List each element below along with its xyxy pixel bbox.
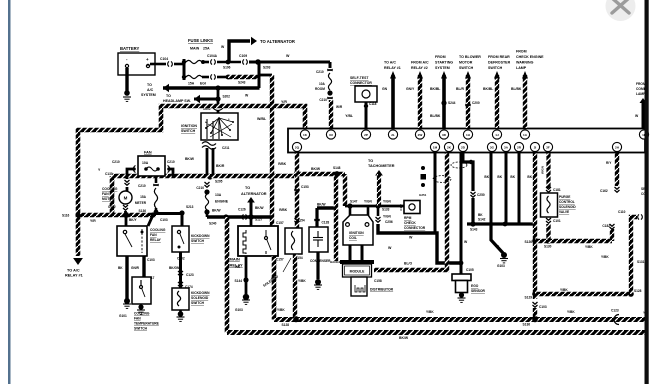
svg-text:CONNECTOR: CONNECTOR	[350, 81, 372, 85]
svg-text:BK: BK	[527, 175, 532, 179]
svg-text:BK: BK	[484, 175, 489, 179]
svg-text:BK: BK	[478, 213, 483, 217]
svg-text:Y/BK: Y/BK	[585, 245, 593, 249]
svg-text:C103: C103	[160, 218, 168, 222]
svg-text:C200: C200	[472, 101, 480, 105]
svg-text:Y/BK: Y/BK	[298, 279, 306, 283]
svg-text:C105: C105	[466, 268, 474, 272]
svg-text:SENSOR: SENSOR	[471, 289, 486, 293]
svg-text:W: W	[286, 54, 290, 58]
svg-text:2Q: 2Q	[295, 146, 300, 150]
svg-text:Y/R: Y/R	[90, 219, 96, 223]
svg-text:BL/O: BL/O	[404, 262, 412, 266]
svg-text:C103: C103	[147, 258, 155, 262]
svg-text:BK/W: BK/W	[399, 336, 409, 340]
svg-text:C102: C102	[108, 205, 116, 209]
svg-text:DEFROSTER: DEFROSTER	[488, 61, 511, 65]
svg-text:C104A: C104A	[207, 54, 218, 58]
svg-text:SWITCH: SWITCH	[181, 129, 196, 133]
svg-text:SYSTEM: SYSTEM	[141, 93, 156, 97]
svg-text:C147: C147	[399, 204, 403, 211]
svg-text:2L: 2L	[391, 133, 395, 137]
svg-text:FROM: FROM	[636, 82, 646, 86]
svg-text:SWITCH: SWITCH	[191, 301, 205, 305]
svg-text:W: W	[388, 246, 392, 250]
svg-text:SYSTEM: SYSTEM	[435, 66, 450, 70]
svg-text:BK/W: BK/W	[185, 157, 195, 161]
svg-text:COOLING: COOLING	[150, 228, 166, 232]
svg-text:BK/BL: BK/BL	[430, 87, 440, 91]
svg-text:G101: G101	[119, 314, 127, 318]
svg-text:RELAY: RELAY	[150, 238, 162, 242]
svg-text:FROM REAR: FROM REAR	[488, 55, 510, 59]
svg-text:Y/GN: Y/GN	[383, 215, 391, 219]
svg-text:TEMPERATURE: TEMPERATURE	[134, 322, 160, 326]
svg-text:SELF-TEST: SELF-TEST	[350, 76, 369, 80]
svg-text:S136: S136	[523, 323, 531, 327]
svg-text:C123: C123	[611, 309, 619, 313]
svg-text:GN: GN	[382, 87, 388, 91]
svg-text:2W: 2W	[418, 133, 423, 137]
svg-text:R/BK: R/BK	[279, 208, 287, 212]
svg-text:15A: 15A	[188, 82, 195, 86]
svg-text:IGNITION: IGNITION	[349, 231, 364, 235]
svg-text:BATTERY: BATTERY	[120, 46, 140, 51]
svg-text:Y/BK: Y/BK	[426, 310, 434, 314]
svg-text:VALVE: VALVE	[559, 210, 569, 214]
svg-text:C211: C211	[222, 146, 230, 150]
svg-text:C101: C101	[553, 219, 561, 223]
svg-text:TO: TO	[166, 94, 171, 98]
svg-text:COOLING: COOLING	[102, 187, 118, 191]
svg-text:C210: C210	[196, 186, 204, 190]
svg-text:BK/W: BK/W	[311, 167, 321, 171]
svg-text:PURGE: PURGE	[559, 195, 570, 199]
svg-text:Y/BK: Y/BK	[601, 255, 609, 259]
svg-text:S130: S130	[544, 245, 552, 249]
svg-text:10A: 10A	[319, 82, 326, 86]
svg-text:BK/W: BK/W	[255, 206, 264, 210]
svg-text:S143: S143	[470, 228, 478, 232]
svg-text:ENGINE: ENGINE	[215, 200, 229, 204]
svg-text:S243: S243	[238, 81, 246, 85]
svg-text:1J: 1J	[495, 133, 499, 137]
svg-text:S129: S129	[525, 296, 533, 300]
svg-text:R/BK: R/BK	[278, 162, 286, 166]
svg-text:MOTOR: MOTOR	[459, 61, 473, 65]
svg-text:C128: C128	[322, 221, 330, 225]
svg-text:S244: S244	[448, 101, 456, 105]
svg-text:2F: 2F	[546, 146, 550, 150]
svg-text:TO BLOWER: TO BLOWER	[459, 55, 481, 59]
svg-text:CONNECTOR: CONNECTOR	[404, 226, 426, 230]
svg-text:C157: C157	[276, 258, 284, 262]
svg-text:GN/Y: GN/Y	[406, 87, 415, 91]
svg-text:FAN: FAN	[134, 317, 141, 321]
svg-text:+: +	[146, 57, 149, 62]
svg-text:GN/R: GN/R	[131, 266, 140, 270]
svg-text:S136: S136	[139, 209, 147, 213]
svg-text:15A: 15A	[140, 195, 147, 199]
svg-text:S126: S126	[525, 240, 533, 244]
svg-text:1M: 1M	[433, 146, 438, 150]
svg-text:S240: S240	[209, 222, 217, 226]
svg-text:13A: 13A	[215, 193, 222, 197]
svg-text:CHECK: CHECK	[404, 221, 416, 225]
svg-text:MAIN: MAIN	[190, 47, 200, 51]
svg-text:FAN: FAN	[102, 192, 109, 196]
svg-text:ROOM: ROOM	[315, 87, 325, 91]
svg-text:SOLENOID: SOLENOID	[559, 205, 576, 209]
svg-text:G103: G103	[235, 308, 243, 312]
svg-text:C158: C158	[374, 279, 382, 283]
svg-text:C250: C250	[477, 193, 485, 197]
svg-text:10A: 10A	[142, 161, 149, 165]
svg-text:FAN: FAN	[144, 151, 152, 155]
svg-text:ALTERNATOR: ALTERNATOR	[241, 192, 267, 196]
svg-text:SWITCH: SWITCH	[488, 66, 503, 70]
svg-text:Y/BL: Y/BL	[345, 114, 353, 118]
svg-text:BL/R: BL/R	[456, 87, 464, 91]
svg-text:A/C: A/C	[147, 88, 154, 92]
svg-text:S128: S128	[634, 289, 642, 293]
svg-text:TO A/C: TO A/C	[384, 61, 396, 65]
svg-text:TACHOMETER: TACHOMETER	[368, 164, 395, 168]
svg-text:EGO: EGO	[471, 284, 479, 288]
svg-text:G251: G251	[419, 193, 427, 197]
svg-text:STARTING: STARTING	[435, 61, 453, 65]
svg-text:S203: S203	[263, 66, 271, 70]
svg-text:S213: S213	[186, 205, 194, 209]
svg-text:TO: TO	[368, 159, 373, 163]
svg-text:WARNING: WARNING	[516, 61, 534, 65]
svg-text:C123: C123	[186, 273, 194, 277]
svg-text:C181: C181	[553, 188, 561, 192]
svg-text:C210: C210	[167, 160, 175, 164]
svg-text:TO: TO	[147, 83, 152, 87]
svg-text:S106: S106	[223, 66, 231, 70]
svg-text:S128: S128	[282, 323, 290, 327]
svg-text:RPM: RPM	[404, 216, 412, 220]
svg-text:Y/BK: Y/BK	[277, 308, 285, 312]
svg-text:COOLING: COOLING	[134, 312, 150, 316]
svg-text:C126: C126	[238, 208, 246, 212]
svg-text:MAIN: MAIN	[230, 257, 240, 262]
svg-text:HEADLAMP SW.: HEADLAMP SW.	[163, 99, 191, 103]
svg-text:S144: S144	[235, 279, 243, 283]
svg-text:SWITCH: SWITCH	[134, 327, 148, 331]
svg-text:FUSE LINKS: FUSE LINKS	[188, 38, 213, 43]
svg-text:R/Y: R/Y	[606, 161, 612, 165]
svg-text:DISTRIBUTOR: DISTRIBUTOR	[370, 288, 394, 292]
svg-text:COIL: COIL	[349, 236, 357, 240]
svg-text:C210: C210	[138, 184, 146, 188]
svg-text:FROM: FROM	[516, 50, 527, 54]
svg-text:S148: S148	[333, 166, 341, 170]
svg-text:S131: S131	[637, 260, 645, 264]
svg-text:C103: C103	[539, 305, 547, 309]
svg-text:SWITCH: SWITCH	[191, 239, 205, 243]
svg-text:25A: 25A	[203, 47, 210, 51]
svg-text:C210: C210	[319, 98, 327, 102]
svg-text:RELAY #1: RELAY #1	[384, 66, 401, 70]
svg-text:3G: 3G	[490, 146, 495, 150]
svg-text:BK: BK	[235, 265, 240, 269]
svg-text:LAMP: LAMP	[516, 66, 527, 70]
svg-text:TO: TO	[245, 186, 250, 190]
svg-text:MOTOR: MOTOR	[102, 197, 115, 201]
svg-text:S116: S116	[62, 214, 69, 218]
svg-text:S205: S205	[215, 180, 223, 184]
svg-text:BK: BK	[510, 175, 515, 179]
svg-text:BK/W: BK/W	[212, 209, 221, 213]
svg-text:C157: C157	[276, 221, 284, 225]
svg-text:METER: METER	[135, 201, 147, 205]
svg-text:C162: C162	[600, 189, 608, 193]
svg-text:C153: C153	[301, 185, 309, 189]
svg-text:C104: C104	[160, 57, 168, 61]
svg-text:FROM A/C: FROM A/C	[411, 61, 429, 65]
svg-text:CONDENSER: CONDENSER	[310, 259, 331, 263]
svg-text:Y/BK: Y/BK	[567, 310, 575, 314]
svg-text:S202: S202	[223, 95, 231, 99]
svg-text:FAN: FAN	[150, 233, 157, 237]
svg-text:S127: S127	[255, 218, 263, 222]
svg-text:M: M	[124, 196, 128, 201]
svg-text:C118: C118	[369, 102, 377, 106]
svg-text:2P: 2P	[364, 133, 368, 137]
svg-text:G103: G103	[497, 264, 505, 268]
svg-text:RELAY #1: RELAY #1	[65, 274, 83, 278]
svg-text:EGI: EGI	[200, 82, 206, 86]
svg-text:C109: C109	[239, 54, 247, 58]
svg-text:CONTROL: CONTROL	[559, 200, 575, 204]
svg-text:FROM: FROM	[435, 55, 446, 59]
svg-text:Y/R: Y/R	[281, 100, 287, 104]
svg-text:BK/Y: BK/Y	[129, 218, 137, 222]
svg-text:S147: S147	[350, 200, 358, 204]
svg-text:MODULE: MODULE	[350, 270, 365, 274]
svg-text:RELAY #2: RELAY #2	[411, 66, 428, 70]
svg-text:Y/BK: Y/BK	[560, 288, 568, 292]
svg-text:SOLENOID: SOLENOID	[191, 296, 209, 300]
svg-text:KICKDOWN: KICKDOWN	[191, 234, 210, 238]
svg-text:C110: C110	[618, 210, 626, 214]
svg-text:Y/GN: Y/GN	[383, 200, 391, 204]
svg-text:KICKDOWN: KICKDOWN	[191, 291, 210, 295]
svg-text:BK: BK	[118, 266, 123, 270]
svg-text:W/R: W/R	[336, 105, 343, 109]
svg-text:CHECK ENGINE: CHECK ENGINE	[516, 55, 544, 59]
svg-text:C130: C130	[105, 172, 113, 176]
svg-text:BK/BL: BK/BL	[483, 87, 493, 91]
svg-text:W: W	[409, 236, 413, 240]
svg-text:C210: C210	[316, 70, 324, 74]
svg-text:BK/GN: BK/GN	[169, 266, 180, 270]
svg-text:C182: C182	[602, 224, 610, 228]
svg-text:BK/W: BK/W	[317, 203, 326, 207]
svg-text:C256: C256	[385, 220, 393, 224]
svg-text:BK: BK	[497, 175, 502, 179]
svg-text:C210: C210	[112, 160, 120, 164]
svg-text:TO A/C: TO A/C	[67, 269, 80, 273]
svg-text:IGNITION: IGNITION	[181, 124, 197, 128]
svg-text:S142: S142	[478, 218, 486, 222]
svg-text:TO ALTERNATOR: TO ALTERNATOR	[260, 39, 295, 44]
svg-text:Y/GN: Y/GN	[364, 200, 372, 204]
svg-text:2I: 2I	[534, 146, 537, 150]
svg-text:BL/BK: BL/BK	[430, 114, 441, 118]
svg-text:S133: S133	[382, 208, 390, 212]
svg-text:BK/R: BK/R	[216, 164, 225, 168]
svg-text:SWITCH: SWITCH	[459, 66, 474, 70]
svg-text:W/BL: W/BL	[257, 117, 267, 121]
svg-text:BL/BK: BL/BK	[511, 87, 522, 91]
svg-text:W/GN: W/GN	[541, 166, 545, 174]
